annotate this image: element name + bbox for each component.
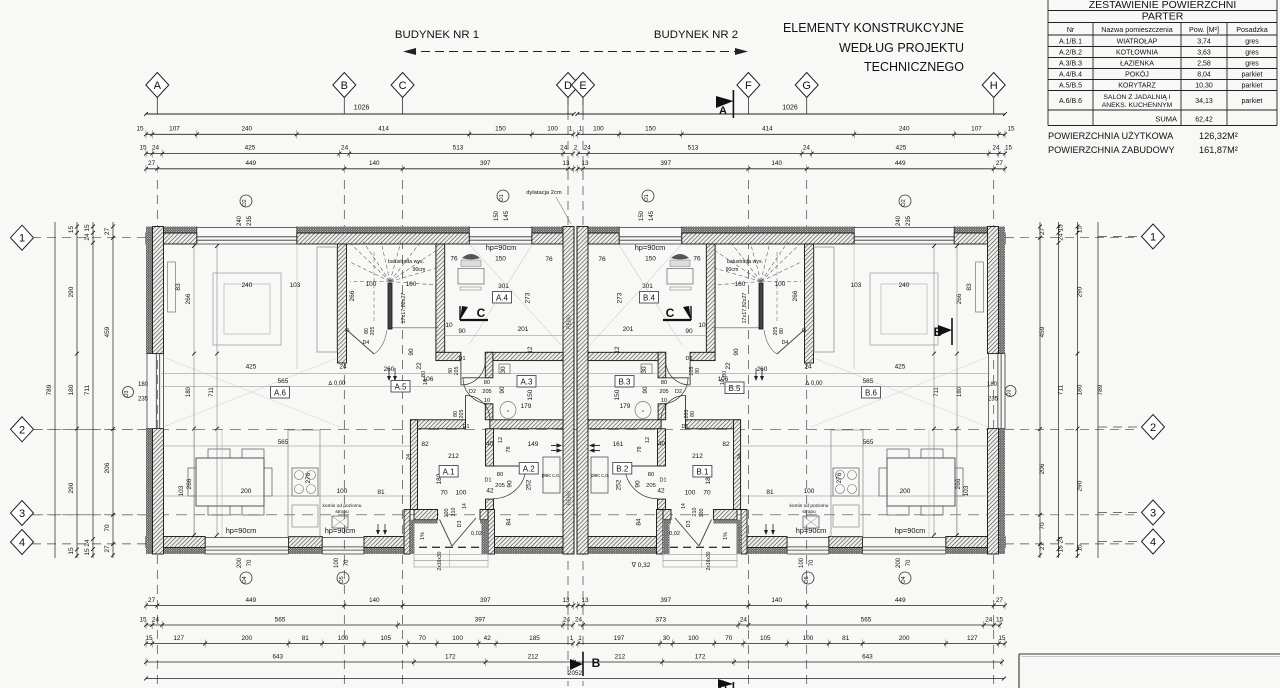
svg-text:3: 3 [1150, 508, 1156, 520]
svg-text:179: 179 [521, 403, 532, 410]
svg-text:27: 27 [148, 160, 156, 167]
svg-text:2052: 2052 [568, 670, 583, 677]
svg-text:WIATROŁAP: WIATROŁAP [1117, 38, 1158, 45]
svg-text:643: 643 [272, 654, 283, 661]
svg-text:240: 240 [899, 126, 910, 133]
svg-text:A.3: A.3 [520, 377, 533, 386]
svg-text:15: 15 [996, 617, 1004, 624]
svg-text:103: 103 [290, 282, 301, 289]
svg-text:180: 180 [957, 386, 963, 397]
svg-text:27: 27 [996, 597, 1004, 604]
svg-text:210: 210 [692, 508, 698, 517]
svg-text:17x17,82x27: 17x17,82x27 [401, 293, 407, 324]
svg-text:24: 24 [985, 617, 993, 624]
svg-text:O2: O2 [242, 199, 248, 206]
svg-text:10: 10 [445, 322, 453, 329]
svg-text:Posadzka: Posadzka [1236, 25, 1268, 34]
svg-text:2: 2 [574, 145, 578, 152]
svg-text:gres: gres [1245, 60, 1259, 67]
svg-text:REI60: REI60 [567, 315, 573, 329]
svg-text:179: 179 [620, 403, 631, 410]
svg-text:397: 397 [480, 597, 491, 604]
svg-text:81: 81 [302, 635, 310, 642]
svg-text:O1: O1 [499, 194, 505, 201]
svg-text:105: 105 [380, 635, 391, 642]
svg-text:266: 266 [792, 290, 799, 301]
svg-text:Pow. [M²]: Pow. [M²] [1189, 25, 1219, 34]
svg-text:1%: 1% [420, 532, 426, 540]
svg-text:180: 180 [987, 382, 998, 388]
svg-text:REI60: REI60 [567, 491, 573, 505]
svg-text:205: 205 [684, 410, 690, 419]
svg-text:235: 235 [906, 215, 912, 226]
svg-text:2x16x30: 2x16x30 [706, 551, 712, 570]
svg-text:100: 100 [593, 126, 604, 133]
svg-text:gres: gres [1245, 49, 1259, 56]
svg-text:∆ 0,00: ∆ 0,00 [328, 380, 346, 387]
svg-text:200: 200 [241, 635, 252, 642]
svg-text:90: 90 [642, 386, 649, 394]
svg-text:A.4: A.4 [496, 293, 509, 302]
svg-text:206: 206 [104, 462, 111, 473]
svg-text:449: 449 [245, 160, 256, 167]
svg-text:235: 235 [138, 397, 149, 403]
svg-text:3: 3 [19, 508, 25, 520]
svg-text:3,63: 3,63 [1197, 49, 1211, 56]
svg-text:425: 425 [246, 364, 257, 371]
svg-text:90: 90 [499, 386, 506, 394]
svg-text:42: 42 [657, 488, 665, 495]
svg-text:30: 30 [500, 366, 507, 374]
svg-text:83: 83 [175, 283, 182, 291]
svg-text:290: 290 [1077, 480, 1084, 491]
svg-text:161: 161 [613, 441, 624, 448]
svg-text:81: 81 [766, 489, 774, 496]
svg-text:0,02: 0,02 [669, 531, 680, 537]
svg-text:1026: 1026 [782, 105, 798, 112]
svg-text:POWIERZCHNIA ZABUDOWY: POWIERZCHNIA ZABUDOWY [1048, 145, 1175, 155]
svg-text:81: 81 [377, 489, 385, 496]
svg-text:100: 100 [338, 635, 349, 642]
svg-text:76: 76 [450, 256, 458, 263]
svg-text:hp=90cm: hp=90cm [635, 243, 666, 252]
svg-text:∇ 0,32: ∇ 0,32 [631, 561, 651, 569]
svg-text:276: 276 [836, 472, 843, 483]
svg-text:160: 160 [735, 281, 746, 288]
svg-text:Nr: Nr [1067, 25, 1075, 34]
svg-text:70: 70 [419, 635, 427, 642]
svg-text:komin od poziomu: komin od poziomu [323, 503, 362, 509]
svg-text:H: H [990, 80, 998, 92]
svg-text:200: 200 [900, 488, 911, 495]
svg-text:24: 24 [560, 145, 568, 152]
svg-text:107: 107 [971, 126, 982, 133]
svg-text:0,02: 0,02 [471, 531, 482, 537]
svg-text:15: 15 [139, 145, 147, 152]
svg-text:565: 565 [863, 439, 874, 446]
svg-text:A.4/B.4: A.4/B.4 [1059, 71, 1082, 78]
svg-text:565: 565 [861, 617, 872, 624]
svg-text:BUDYNEK NR 2: BUDYNEK NR 2 [654, 29, 738, 41]
svg-text:565: 565 [278, 439, 289, 446]
svg-text:103: 103 [963, 485, 970, 496]
svg-text:80: 80 [484, 380, 490, 386]
svg-text:90: 90 [635, 480, 642, 488]
svg-text:gres: gres [1245, 38, 1259, 45]
svg-text:711: 711 [209, 387, 215, 397]
svg-text:24: 24 [1058, 233, 1065, 241]
svg-text:13: 13 [581, 160, 589, 167]
svg-text:24: 24 [737, 454, 743, 460]
svg-text:100: 100 [685, 490, 696, 497]
svg-text:425: 425 [896, 145, 907, 152]
svg-text:24: 24 [341, 145, 349, 152]
svg-text:84: 84 [636, 518, 643, 526]
svg-text:80: 80 [497, 472, 503, 478]
svg-text:150: 150 [494, 210, 500, 221]
svg-text:D2: D2 [675, 389, 682, 395]
svg-text:hp=90cm: hp=90cm [226, 526, 257, 535]
svg-text:150: 150 [495, 126, 506, 133]
svg-text:2: 2 [1150, 422, 1156, 434]
svg-text:100: 100 [799, 557, 805, 568]
svg-text:100: 100 [334, 557, 340, 568]
svg-text:205: 205 [689, 367, 695, 376]
svg-text:B.5: B.5 [728, 384, 741, 393]
svg-text:piec c.o.: piec c.o. [542, 473, 561, 479]
svg-text:90: 90 [458, 328, 466, 335]
svg-text:240: 240 [241, 126, 252, 133]
svg-text:10: 10 [698, 322, 706, 329]
svg-text:34,13: 34,13 [1195, 98, 1213, 105]
svg-text:414: 414 [762, 126, 773, 133]
svg-text:127: 127 [967, 635, 978, 642]
svg-text:76: 76 [545, 256, 553, 263]
svg-text:425: 425 [895, 364, 906, 371]
svg-text:397: 397 [480, 160, 491, 167]
svg-text:A: A [719, 105, 727, 117]
svg-text:70: 70 [725, 635, 733, 642]
svg-text:A: A [154, 80, 162, 92]
svg-text:150: 150 [645, 256, 656, 263]
svg-text:212: 212 [528, 654, 539, 661]
svg-text:459: 459 [104, 326, 111, 337]
svg-text:273: 273 [617, 292, 624, 303]
svg-text:76: 76 [598, 256, 606, 263]
svg-text:206: 206 [1039, 463, 1046, 474]
svg-text:hp=90cm: hp=90cm [486, 243, 517, 252]
svg-text:1: 1 [578, 635, 582, 642]
svg-text:140: 140 [771, 160, 782, 167]
svg-text:KOTŁOWNIA: KOTŁOWNIA [1116, 49, 1158, 56]
svg-text:150: 150 [645, 126, 656, 133]
svg-text:565: 565 [278, 378, 289, 385]
svg-text:82: 82 [722, 441, 730, 448]
svg-text:WEDŁUG PROJEKTU: WEDŁUG PROJEKTU [839, 41, 964, 55]
svg-text:8,04: 8,04 [1197, 71, 1211, 78]
svg-text:240: 240 [237, 215, 243, 226]
svg-text:145: 145 [649, 210, 655, 221]
svg-text:parkiet: parkiet [1241, 71, 1262, 78]
svg-text:24: 24 [740, 617, 748, 624]
svg-text:90: 90 [507, 480, 514, 488]
svg-text:70: 70 [809, 559, 815, 566]
svg-text:200: 200 [896, 557, 902, 568]
svg-text:150: 150 [639, 210, 645, 221]
svg-text:205: 205 [454, 367, 460, 376]
svg-text:373: 373 [655, 617, 666, 624]
svg-text:235: 235 [988, 397, 999, 403]
svg-text:O5: O5 [804, 576, 810, 583]
svg-text:201: 201 [623, 326, 634, 333]
svg-text:B.2: B.2 [616, 464, 629, 473]
svg-text:513: 513 [688, 145, 699, 152]
svg-text:O3: O3 [1007, 389, 1013, 396]
svg-text:711: 711 [934, 387, 940, 397]
svg-text:balustrada wys.: balustrada wys. [727, 259, 763, 265]
svg-text:172: 172 [445, 654, 456, 661]
svg-text:ZESTAWIENIE POWIERZCHNI: ZESTAWIENIE POWIERZCHNI [1089, 0, 1237, 11]
svg-text:Nazwa pomieszczenia: Nazwa pomieszczenia [1101, 25, 1173, 34]
svg-text:balustrada wys.: balustrada wys. [388, 259, 424, 265]
svg-text:81: 81 [842, 635, 850, 642]
svg-text:hp=90cm: hp=90cm [325, 526, 356, 535]
svg-text:22: 22 [725, 362, 732, 370]
svg-text:A.3/B.3: A.3/B.3 [1059, 60, 1082, 67]
svg-text:103: 103 [178, 485, 185, 496]
svg-text:103: 103 [851, 282, 862, 289]
svg-text:290: 290 [68, 286, 75, 297]
svg-text:24: 24 [152, 617, 160, 624]
svg-text:15: 15 [136, 126, 144, 133]
svg-text:205: 205 [646, 483, 656, 489]
svg-text:15: 15 [145, 635, 153, 642]
svg-text:BUDYNEK NR 1: BUDYNEK NR 1 [395, 29, 479, 41]
svg-text:D2: D2 [469, 389, 476, 395]
svg-text:ŁAZIENKA: ŁAZIENKA [1120, 60, 1154, 67]
svg-text:149: 149 [528, 441, 539, 448]
svg-text:15: 15 [84, 224, 91, 232]
svg-text:150: 150 [614, 389, 621, 400]
svg-text:643: 643 [862, 654, 873, 661]
svg-text:197: 197 [614, 635, 625, 642]
svg-text:12: 12 [498, 437, 504, 443]
svg-text:1026: 1026 [354, 105, 370, 112]
svg-text:205: 205 [370, 327, 376, 336]
svg-text:22: 22 [416, 362, 423, 370]
svg-text:TECHNICZNEGO: TECHNICZNEGO [864, 60, 964, 74]
svg-text:185: 185 [529, 635, 540, 642]
svg-text:140: 140 [369, 597, 380, 604]
svg-text:266: 266 [185, 293, 192, 304]
svg-text:1: 1 [570, 635, 574, 642]
svg-text:ELEMENTY KONSTRUKCYJNE: ELEMENTY KONSTRUKCYJNE [783, 21, 964, 35]
svg-text:200: 200 [899, 635, 910, 642]
svg-text:D: D [564, 80, 572, 92]
svg-text:C: C [666, 306, 675, 320]
svg-text:200: 200 [241, 488, 252, 495]
svg-text:O4: O4 [242, 576, 248, 583]
svg-text:180: 180 [186, 386, 192, 397]
svg-text:62,42: 62,42 [1195, 117, 1213, 124]
svg-text:210: 210 [451, 508, 457, 517]
svg-text:145: 145 [504, 210, 510, 221]
svg-text:240: 240 [242, 282, 253, 289]
svg-text:D1: D1 [686, 356, 693, 362]
svg-text:1: 1 [579, 126, 583, 133]
svg-text:24: 24 [575, 617, 583, 624]
svg-text:D4: D4 [782, 340, 789, 346]
svg-text:24: 24 [563, 617, 571, 624]
svg-text:70: 70 [247, 559, 253, 566]
svg-text:24: 24 [84, 233, 91, 241]
svg-text:D1: D1 [463, 424, 470, 430]
svg-text:266: 266 [349, 290, 356, 301]
svg-text:180: 180 [1077, 384, 1084, 395]
svg-text:78: 78 [506, 446, 512, 452]
svg-text:2: 2 [19, 424, 25, 436]
svg-text:C: C [399, 80, 407, 92]
svg-text:80: 80 [661, 380, 667, 386]
svg-text:205: 205 [482, 389, 491, 395]
svg-text:83: 83 [966, 283, 973, 291]
svg-text:PARTER: PARTER [1142, 11, 1184, 23]
svg-text:12: 12 [614, 346, 621, 354]
svg-text:449: 449 [895, 160, 906, 167]
svg-text:A.6/B.6: A.6/B.6 [1059, 98, 1082, 105]
svg-text:290: 290 [1077, 286, 1084, 297]
svg-text:14: 14 [681, 503, 687, 509]
svg-text:B.4: B.4 [643, 293, 656, 302]
svg-text:15: 15 [1077, 544, 1084, 552]
svg-text:O4: O4 [901, 576, 907, 583]
svg-text:126,32M²: 126,32M² [1199, 131, 1238, 141]
svg-text:G: G [802, 80, 811, 92]
svg-text:212: 212 [692, 453, 703, 460]
svg-text:76: 76 [693, 256, 701, 263]
svg-text:B.3: B.3 [618, 377, 631, 386]
svg-text:212: 212 [448, 453, 459, 460]
svg-text:180: 180 [68, 384, 75, 395]
svg-text:42: 42 [484, 635, 492, 642]
svg-text:12: 12 [527, 346, 534, 354]
svg-text:90cm: 90cm [413, 267, 426, 273]
svg-text:hp=90cm: hp=90cm [895, 526, 926, 535]
svg-text:100: 100 [337, 488, 348, 495]
svg-text:3,74: 3,74 [1197, 38, 1211, 45]
svg-text:24: 24 [1058, 536, 1065, 544]
svg-text:397: 397 [475, 617, 486, 624]
svg-text:40: 40 [658, 441, 666, 448]
svg-text:100: 100 [456, 490, 467, 497]
svg-text:205: 205 [495, 483, 505, 489]
svg-text:90: 90 [685, 328, 693, 335]
svg-text:piec c.o.: piec c.o. [591, 473, 610, 479]
svg-text:30: 30 [663, 635, 671, 642]
svg-text:105: 105 [760, 635, 771, 642]
svg-text:O3: O3 [124, 390, 130, 397]
svg-text:D1: D1 [485, 478, 492, 484]
svg-text:∆ 0,00: ∆ 0,00 [805, 380, 823, 387]
svg-text:100: 100 [804, 488, 815, 495]
svg-text:70: 70 [440, 490, 448, 497]
svg-text:15: 15 [1058, 545, 1065, 553]
svg-text:SUMA: SUMA [1155, 115, 1177, 124]
svg-text:13: 13 [562, 160, 570, 167]
svg-text:parkiet: parkiet [1241, 82, 1262, 89]
svg-text:1%: 1% [723, 532, 729, 540]
svg-text:397: 397 [660, 160, 671, 167]
svg-text:SALON Z JADALNIĄ I: SALON Z JADALNIĄ I [1103, 94, 1170, 101]
svg-text:1: 1 [1150, 232, 1156, 244]
svg-text:B: B [341, 80, 348, 92]
svg-text:789: 789 [46, 384, 53, 395]
svg-text:100: 100 [366, 281, 377, 288]
svg-text:15: 15 [139, 617, 147, 624]
svg-text:24: 24 [804, 364, 812, 371]
svg-text:14: 14 [462, 503, 468, 509]
svg-text:parkiet: parkiet [1241, 98, 1262, 105]
svg-text:komin od poziomu: komin od poziomu [790, 503, 829, 509]
svg-text:10,30: 10,30 [1195, 82, 1213, 89]
svg-text:240: 240 [896, 215, 902, 226]
svg-text:24: 24 [84, 539, 91, 547]
svg-text:1: 1 [19, 233, 25, 245]
svg-text:161,87M²: 161,87M² [1199, 145, 1238, 155]
svg-text:273: 273 [525, 292, 532, 303]
svg-text:172: 172 [695, 654, 706, 661]
svg-text:80: 80 [690, 411, 696, 417]
svg-text:O5: O5 [339, 576, 345, 583]
svg-text:24: 24 [803, 145, 811, 152]
svg-text:266: 266 [955, 478, 962, 489]
svg-text:82: 82 [421, 441, 429, 448]
svg-text:stropu: stropu [335, 509, 349, 515]
svg-text:C: C [477, 306, 486, 320]
svg-text:235: 235 [247, 215, 253, 226]
svg-text:17x17,82x27: 17x17,82x27 [742, 293, 748, 324]
svg-text:12: 12 [645, 437, 651, 443]
svg-text:290: 290 [68, 482, 75, 493]
svg-text:70: 70 [104, 524, 111, 532]
svg-text:ANEKS. KUCHENNYM: ANEKS. KUCHENNYM [1102, 102, 1173, 109]
svg-text:27: 27 [104, 545, 111, 553]
svg-text:B: B [592, 656, 601, 670]
svg-text:425: 425 [245, 145, 256, 152]
svg-text:100: 100 [688, 635, 699, 642]
svg-text:A.2/B.2: A.2/B.2 [1059, 49, 1082, 56]
svg-text:D3: D3 [686, 521, 692, 528]
svg-text:565: 565 [863, 378, 874, 385]
svg-text:565: 565 [275, 617, 286, 624]
svg-text:POKÓJ: POKÓJ [1125, 69, 1149, 78]
svg-text:A.5: A.5 [394, 382, 407, 391]
svg-text:80: 80 [421, 371, 427, 377]
svg-text:100: 100 [547, 126, 558, 133]
svg-text:201: 201 [518, 326, 529, 333]
svg-text:78: 78 [637, 446, 643, 452]
svg-text:A.6: A.6 [274, 388, 287, 397]
svg-text:80: 80 [648, 472, 654, 478]
svg-text:A: A [719, 679, 727, 688]
svg-text:252: 252 [526, 479, 533, 490]
svg-text:90cm: 90cm [726, 267, 739, 273]
svg-text:40: 40 [486, 441, 494, 448]
svg-text:15: 15 [1077, 226, 1084, 234]
svg-text:KORYTARZ: KORYTARZ [1118, 82, 1156, 89]
svg-text:127: 127 [173, 635, 184, 642]
svg-text:13: 13 [581, 597, 589, 604]
